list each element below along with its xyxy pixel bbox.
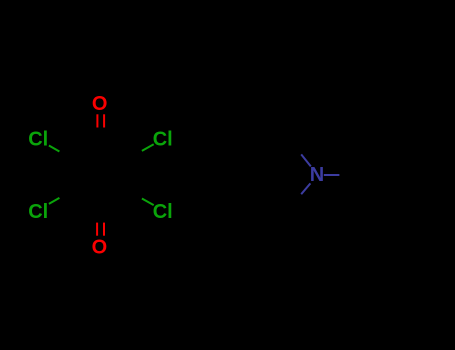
- C4=O2 double bond (red half, two parallel lines): [96, 223, 98, 236]
- bond N1-C (upper-left blue half): [301, 154, 311, 166]
- svg-text:Cl: Cl: [153, 129, 173, 151]
- bond Cl3-C6 (green half): [142, 144, 154, 151]
- bond N1-phenyl (right blue half): [324, 174, 340, 176]
- svg-text:Cl: Cl: [153, 201, 173, 223]
- svg-text:N: N: [310, 164, 324, 186]
- svg-text:O: O: [92, 93, 108, 115]
- svg-text:Cl: Cl: [28, 129, 48, 151]
- bond Cl1-C2 (green half): [49, 146, 60, 152]
- bond N1-C (lower-left blue half): [301, 183, 310, 194]
- bond Cl2-C3 (green half): [49, 198, 60, 204]
- svg-text:O: O: [92, 236, 108, 258]
- bond Cl4-C5 (green half): [142, 199, 154, 206]
- svg-text:Cl: Cl: [28, 201, 48, 223]
- C1=O1 double bond (red half, two parallel lines): [96, 114, 98, 127]
